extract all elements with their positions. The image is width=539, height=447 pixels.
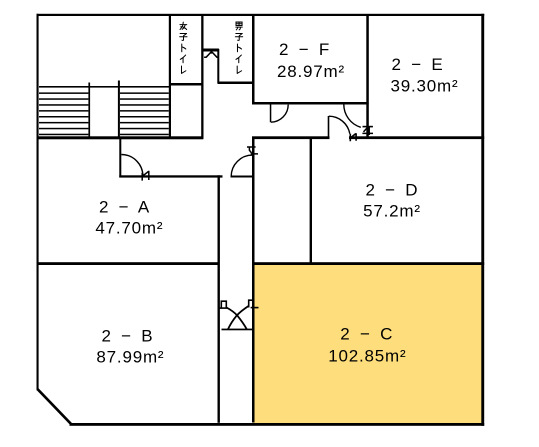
corridor double door left tick — [218, 307, 227, 309]
label women's toilet (vertical glyphs) — [180, 22, 187, 73]
outer wall: right — [481, 14, 484, 426]
corridor double door left hinge — [221, 301, 226, 307]
label men's toilet (vertical glyphs) — [235, 22, 242, 73]
door 2-E arc — [344, 104, 361, 127]
stairs left flight treads — [39, 92, 88, 135]
toilet entry swing marks — [204, 51, 219, 58]
svg-text:102.85m²: 102.85m² — [328, 347, 406, 366]
wall x=253 lower segment (corridor right / 2-C left) — [252, 137, 255, 423]
door 2-A frame zigzag — [142, 171, 149, 181]
wall x=170 (women toilet left / stairs right) — [169, 15, 171, 139]
corridor double door threshold — [222, 329, 253, 331]
stairs right flight treads — [120, 92, 169, 135]
glyph re — [182, 66, 186, 73]
svg-text:39.30m²: 39.30m² — [391, 76, 459, 95]
glyph to — [182, 44, 186, 52]
svg-text:87.99m²: 87.99m² — [96, 348, 164, 367]
corridor top door leaf (horizontal) — [231, 176, 254, 178]
2-D top wall right segment — [349, 136, 484, 139]
glyph i — [236, 55, 241, 63]
outer wall: chamfer bottom-left — [38, 389, 71, 424]
door 2-A (arc) — [121, 155, 143, 177]
2-D left wall — [310, 137, 312, 265]
door 2-F arc — [271, 105, 288, 123]
corridor double door swing strokes — [227, 308, 247, 330]
wall x=202 (women toilet right) — [201, 15, 203, 139]
wall x=253 upper segment (2-F left) — [252, 15, 255, 104]
outer wall: bottom — [70, 423, 485, 426]
svg-text:2 − A: 2 − A — [99, 197, 152, 216]
corridor left wall — [218, 175, 220, 422]
svg-text:28.97m²: 28.97m² — [277, 62, 345, 81]
svg-text:2 − C: 2 − C — [340, 324, 395, 343]
men toilet bottom wall — [218, 82, 253, 85]
wall x=218 toilet alcove right — [217, 49, 219, 83]
door corridor-top (arc into 2-D anteroom) — [231, 155, 252, 176]
glyph child — [180, 34, 187, 41]
glyph women — [180, 22, 187, 29]
2-C top wall — [252, 262, 484, 265]
2-D top wall left segment — [252, 136, 330, 139]
2-A top wall right segment (y=176) — [119, 175, 222, 177]
wall x=367 (2-F/2-E divider) — [366, 15, 369, 139]
glyph to — [237, 44, 241, 52]
women toilet bottom wall — [169, 83, 203, 86]
glyph man — [236, 22, 242, 30]
door hallway-to-2D leaf — [328, 116, 330, 137]
door 2-F leaf — [270, 105, 272, 123]
door hallway frame zigzag — [350, 133, 356, 141]
stairs landing stringer left — [88, 83, 90, 137]
svg-text:2 − B: 2 − B — [101, 326, 155, 345]
door hallway-to-2D arc — [329, 116, 350, 134]
wall y=137 under stairs — [37, 136, 204, 139]
toilet entry lintel — [204, 49, 219, 52]
glyph child — [235, 34, 242, 41]
2-F bottom wall — [252, 102, 369, 105]
svg-text:47.70m²: 47.70m² — [95, 219, 163, 238]
door 2-E frame mark (4-shape) — [362, 126, 373, 135]
corridor double door right hinge — [249, 300, 254, 307]
svg-text:2 − E: 2 − E — [392, 55, 446, 74]
svg-text:57.2m²: 57.2m² — [363, 202, 421, 221]
svg-text:2 − F: 2 − F — [279, 40, 332, 59]
wall x=120 (2-A top step) — [119, 138, 121, 178]
room 2-C floor fill (yellow) — [253, 264, 482, 424]
corridor double door right tick — [251, 307, 259, 309]
stairs landing stringer right — [118, 81, 120, 137]
divider wall 2-A / 2-B — [37, 262, 220, 265]
svg-text:2 − D: 2 − D — [365, 180, 420, 199]
outer wall: left — [37, 14, 39, 391]
glyph re — [237, 66, 241, 73]
stairs top line — [39, 86, 169, 88]
door 2-E frame tick — [363, 126, 373, 128]
outer wall: top — [37, 14, 485, 16]
glyph i — [180, 55, 185, 63]
door corridor-top frame mark — [247, 147, 258, 154]
